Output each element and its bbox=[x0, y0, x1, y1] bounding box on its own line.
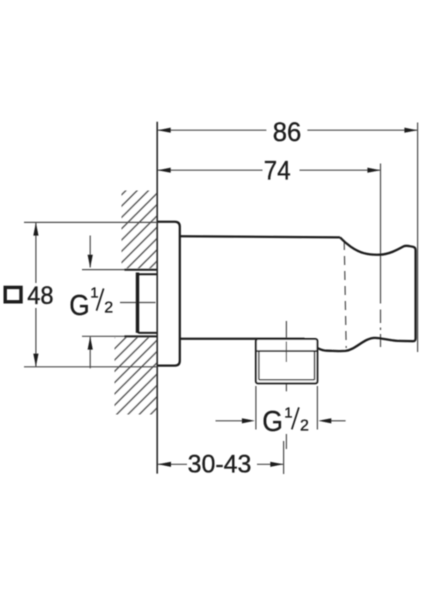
svg-text:G: G bbox=[262, 406, 283, 438]
svg-text:2: 2 bbox=[300, 417, 309, 434]
svg-text:G: G bbox=[69, 290, 89, 322]
svg-text:2: 2 bbox=[104, 300, 113, 317]
svg-text:86: 86 bbox=[273, 117, 302, 147]
svg-text:1: 1 bbox=[90, 284, 98, 301]
svg-text:48: 48 bbox=[27, 282, 53, 310]
svg-text:30-43: 30-43 bbox=[188, 450, 252, 478]
svg-text:1: 1 bbox=[284, 404, 292, 421]
svg-text:74: 74 bbox=[264, 156, 291, 186]
